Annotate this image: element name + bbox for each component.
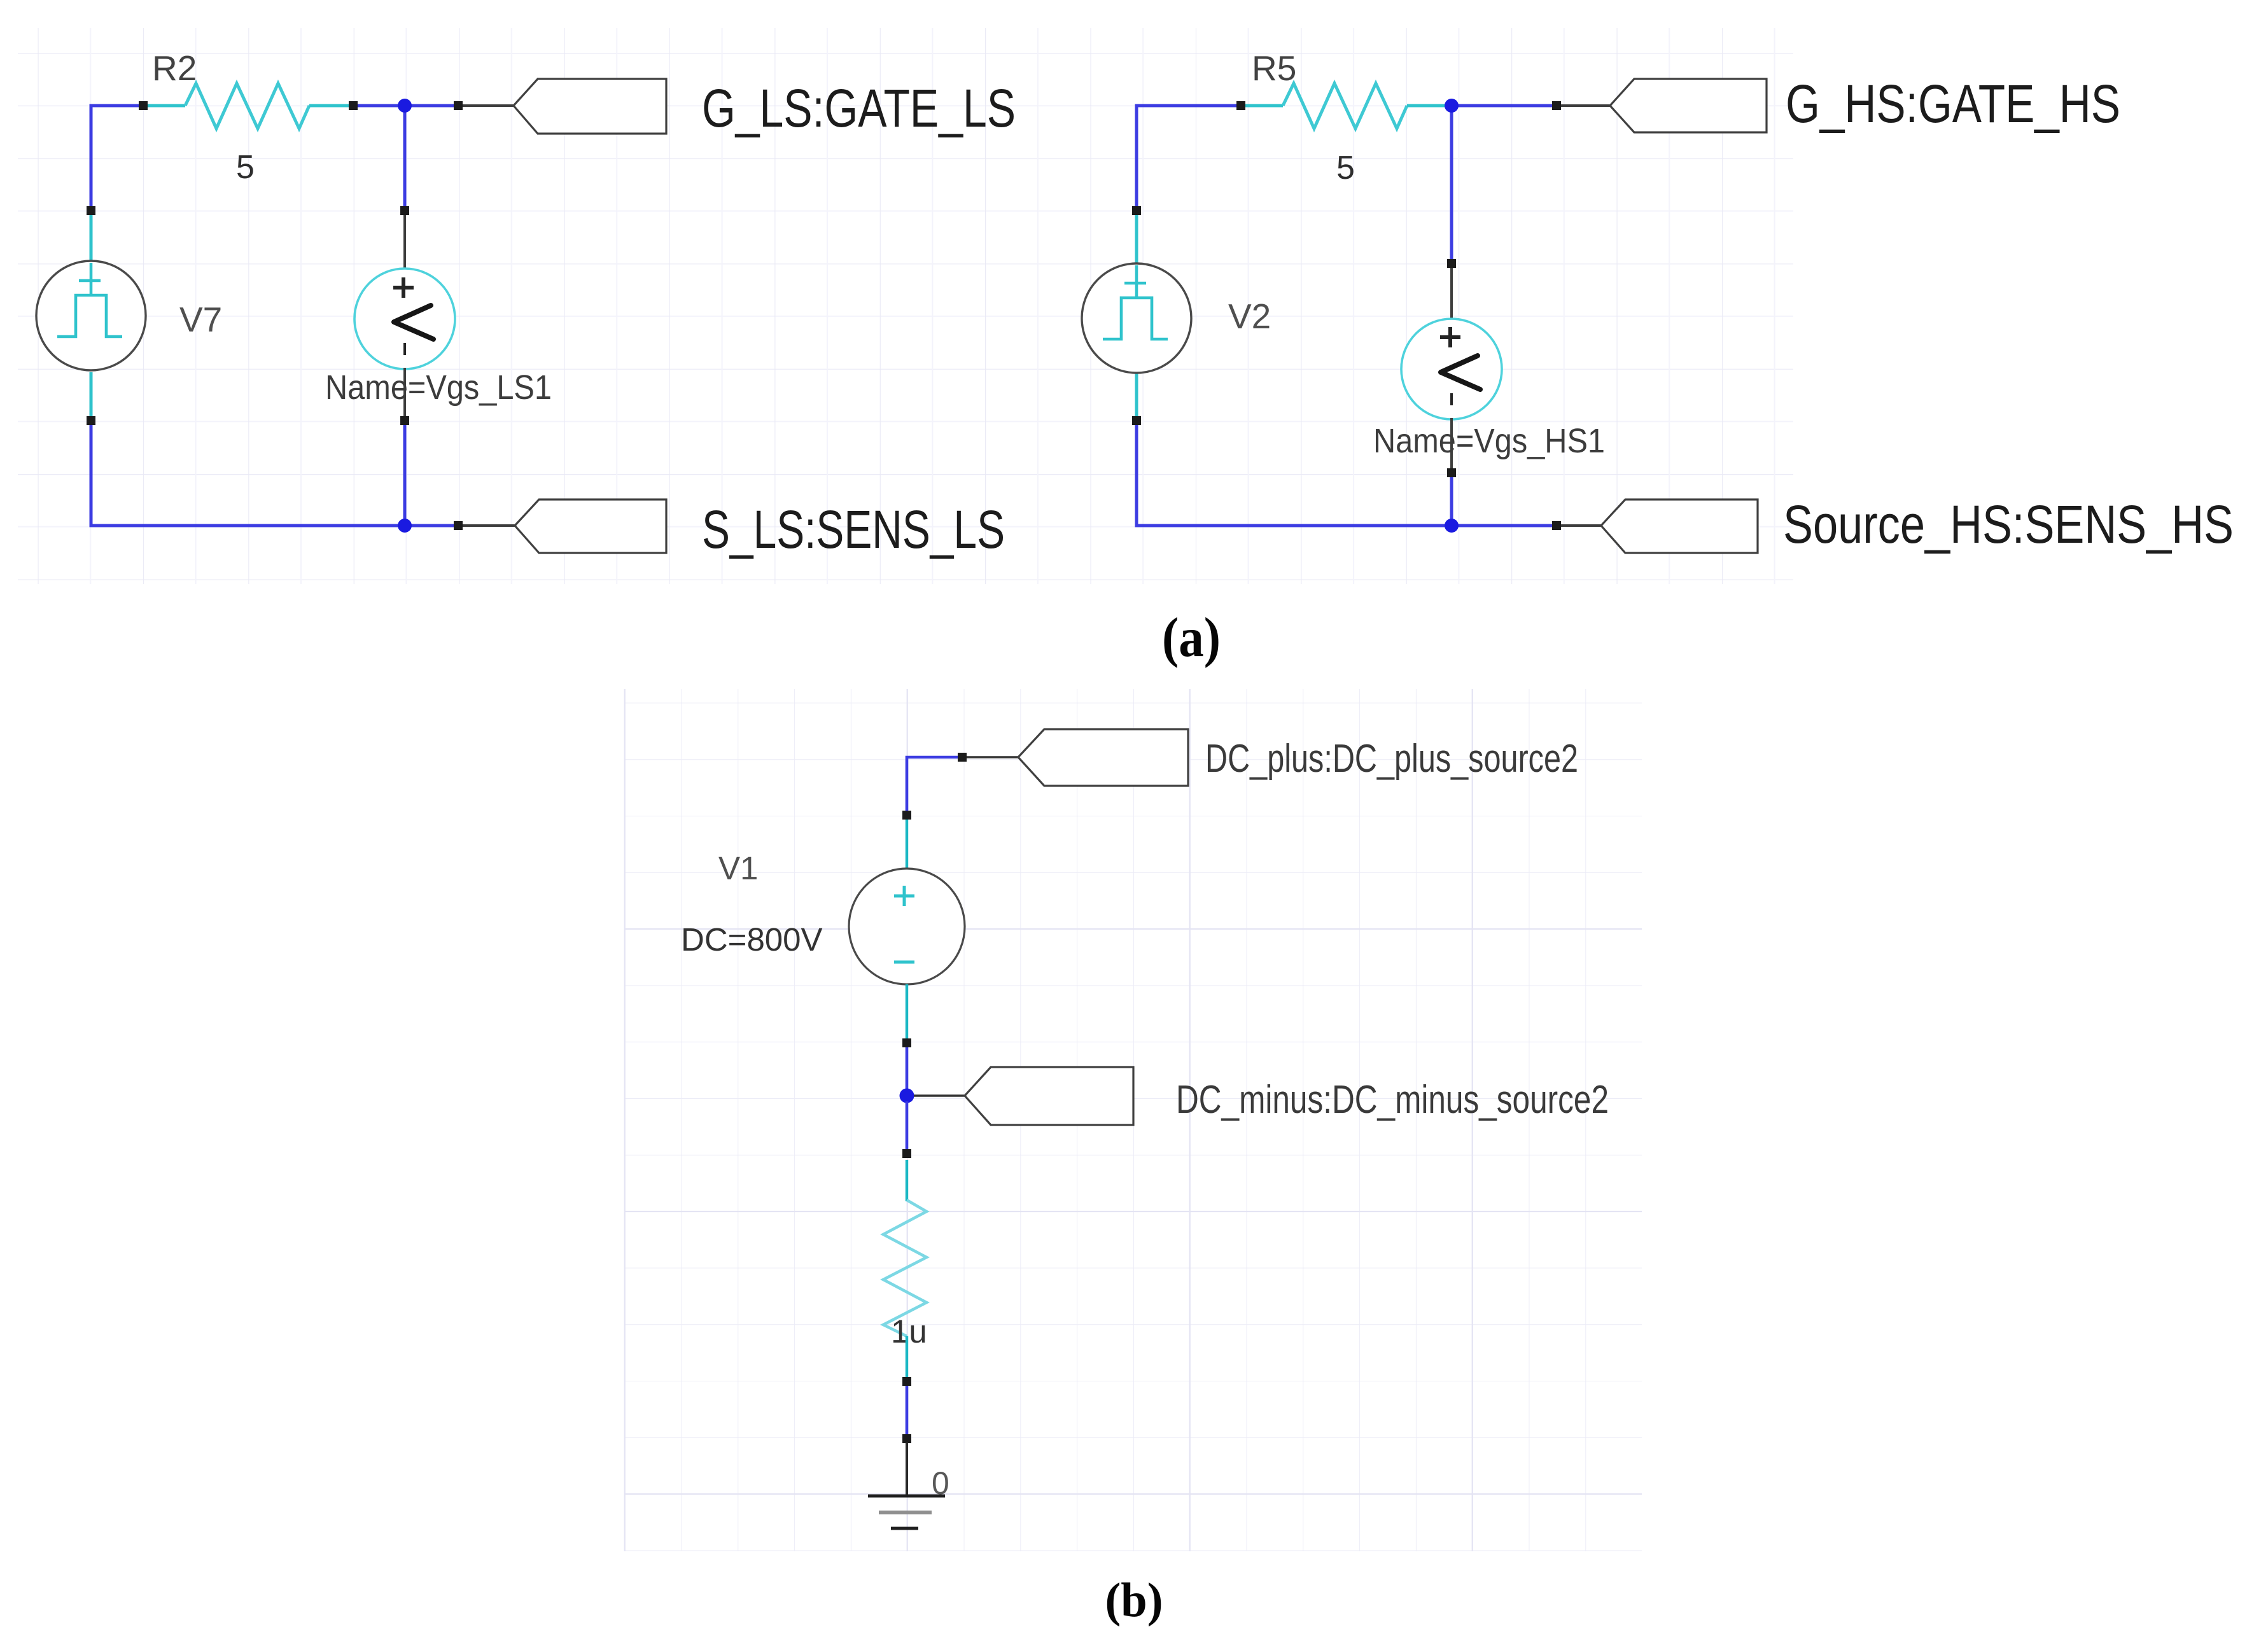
svg-text:DC_minus:DC_minus_source2: DC_minus:DC_minus_source2 xyxy=(1176,1078,1609,1122)
resistor R5 zigzag xyxy=(1283,83,1407,129)
ground bar 2 xyxy=(879,1511,932,1514)
wire lead V2 bottom (cyan) xyxy=(1135,373,1138,419)
junction node DC_minus xyxy=(900,1089,914,1103)
wire junction to resistor (blue) xyxy=(906,1101,909,1156)
wire to connector GATE_LS (black) xyxy=(463,104,514,107)
wire to connector GATE_HS (black) xyxy=(1561,104,1610,107)
wire probe bottom (blue) xyxy=(403,421,407,526)
voltage probe Vgs_LS1 stem top (black) xyxy=(403,213,406,270)
resistor R2 zigzag xyxy=(185,83,309,129)
wire probe HS top (blue) xyxy=(1450,106,1453,263)
DC source V1 circle xyxy=(849,869,965,984)
svg-text:G_HS:GATE_HS: G_HS:GATE_HS xyxy=(1786,74,2120,134)
voltage probe Vgs_HS1 stem top (black) xyxy=(1450,265,1453,320)
pulse source V2 plus and waveform glyph xyxy=(1103,265,1168,339)
pulse source V2 circle xyxy=(1082,263,1191,373)
svg-text:Name=Vgs_LS1: Name=Vgs_LS1 xyxy=(325,368,552,407)
off-page connector SENS_HS xyxy=(1601,499,1758,553)
resistor 1u bottom lead (cyan) xyxy=(906,1336,908,1378)
off-page connector GATE_HS xyxy=(1610,79,1767,132)
wire lead V2 top (cyan) xyxy=(1135,213,1138,265)
resistor R5 right lead (cyan) xyxy=(1407,104,1446,108)
svg-text:S_LS:SENS_LS: S_LS:SENS_LS xyxy=(702,499,1005,559)
resistor R2 right lead (cyan) xyxy=(309,104,351,108)
wire V1 to junction (blue) xyxy=(906,1047,909,1091)
svg-text:V1: V1 xyxy=(718,850,758,886)
svg-text:Source_HS:SENS_HS: Source_HS:SENS_HS xyxy=(1783,494,2234,554)
resistor R1 left lead (cyan) xyxy=(145,104,185,108)
wire to connector SENS_HS (black) xyxy=(1561,524,1601,527)
wire DC_plus corner (blue) xyxy=(907,757,962,815)
svg-text:V7: V7 xyxy=(179,300,222,339)
wire lead V1 bottom (cyan) xyxy=(906,984,908,1041)
wire to connector DC_minus (black) xyxy=(914,1094,965,1097)
voltage probe Vgs_LS1 circle xyxy=(354,269,455,369)
voltage probe Vgs_HS1 plus sign xyxy=(1440,327,1460,347)
DC source V1 plus sign (cyan) xyxy=(894,886,914,962)
junction node top (gate node) xyxy=(398,99,412,113)
voltage probe Vgs_HS1 circle xyxy=(1401,319,1502,419)
svg-text:R2: R2 xyxy=(152,48,197,88)
wire lead V1 top (cyan) xyxy=(906,818,908,870)
voltage probe Vgs_LS1 plus sign xyxy=(393,277,414,298)
ground stem (black) xyxy=(906,1442,908,1496)
svg-text:5: 5 xyxy=(1336,150,1355,186)
ground bar 1 xyxy=(868,1495,945,1498)
wire resistor to ground (blue) xyxy=(906,1385,909,1435)
off-page connector DC_plus xyxy=(1018,729,1188,786)
junction node bottom (sense HS node) xyxy=(1445,519,1459,533)
junction node top (gate HS node) xyxy=(1445,99,1459,113)
ground bar 3 xyxy=(891,1527,918,1530)
voltage probe Vgs_HS1 arrow glyph xyxy=(1441,356,1480,389)
wire top-left from V2 to R5 (blue) xyxy=(1137,106,1241,211)
terminal pins of part b xyxy=(902,753,967,1443)
resistor R5 left lead (cyan) xyxy=(1243,104,1283,108)
wire lead V7 bottom (cyan) xyxy=(90,372,93,419)
svg-text:R5: R5 xyxy=(1252,48,1296,88)
wire V2 bottom to bottom rail (blue) xyxy=(1137,421,1557,526)
wire top-left from V7 to R2 (blue) xyxy=(91,106,143,211)
svg-text:(a): (a) xyxy=(1162,607,1221,669)
svg-text:DC_plus:DC_plus_source2: DC_plus:DC_plus_source2 xyxy=(1205,737,1578,781)
voltage probe Vgs_LS1 stem bottom (black) xyxy=(403,368,406,419)
resistor 1u top lead (cyan) xyxy=(906,1160,908,1201)
voltage probe Vgs_HS1 dash xyxy=(1450,393,1453,405)
junction node bottom (sense node) xyxy=(398,519,412,533)
svg-text:Name=Vgs_HS1: Name=Vgs_HS1 xyxy=(1373,422,1605,460)
wire to connector SENS_LS (black) xyxy=(463,524,515,527)
off-page connector SENS_LS xyxy=(515,499,666,553)
wire probe top (blue) xyxy=(403,106,407,211)
pulse source V7 plus and waveform glyph xyxy=(57,263,122,337)
voltage probe Vgs_HS1 stem bottom (black) xyxy=(1450,418,1453,471)
svg-text:(b): (b) xyxy=(1105,1574,1163,1627)
wire resistor R5 output to junction and connector (blue) xyxy=(1445,104,1557,108)
svg-text:5: 5 xyxy=(236,149,255,186)
wire resistor R2 output to connector terminal (blue) xyxy=(353,104,458,108)
wire lead V7 top (cyan) xyxy=(90,213,93,263)
wire to connector DC_plus (black) xyxy=(967,756,1018,758)
svg-text:V2: V2 xyxy=(1228,297,1271,336)
wire V7 bottom to bottom rail (blue) xyxy=(91,421,458,526)
pulse source V7 circle xyxy=(36,261,146,370)
voltage probe Vgs_LS1 arrow glyph xyxy=(394,305,433,339)
wire probe HS bottom (blue) xyxy=(1450,473,1453,526)
svg-text:DC=800V: DC=800V xyxy=(681,921,823,958)
off-page connector DC_minus xyxy=(965,1067,1133,1125)
terminal pins of left circuit xyxy=(87,101,463,530)
voltage probe Vgs_LS1 dash xyxy=(403,343,406,355)
resistor 1u zigzag (vertical) xyxy=(883,1200,927,1336)
svg-text:1u: 1u xyxy=(891,1313,927,1350)
terminal pins of right circuit xyxy=(1132,101,1561,530)
svg-text:0: 0 xyxy=(932,1465,949,1501)
off-page connector GATE_LS xyxy=(514,79,666,134)
svg-text:G_LS:GATE_LS: G_LS:GATE_LS xyxy=(702,78,1016,138)
